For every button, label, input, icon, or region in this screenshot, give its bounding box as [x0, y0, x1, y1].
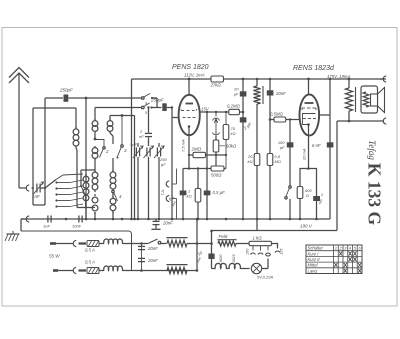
label 1k bias — [187, 189, 192, 199]
label 0.5M — [270, 112, 284, 117]
wire B-plus return line — [212, 230, 338, 232]
label 100pF — [278, 140, 285, 150]
wire cathode1 — [188, 135, 190, 170]
label 20nF bus — [162, 221, 173, 226]
label 27k — [210, 83, 222, 88]
label RENS 1823d — [293, 65, 335, 72]
switch 4 — [112, 190, 118, 201]
wire divider right — [272, 244, 278, 249]
label 60k — [220, 144, 237, 149]
connector mains aerial — [21, 216, 29, 222]
wire top bus y79 — [132, 78, 387, 80]
wire bias row — [183, 167, 211, 169]
label lamp — [257, 275, 273, 280]
capacitor 10uF — [208, 254, 214, 260]
connector mains 1 — [73, 240, 86, 246]
wire rail x207 — [206, 111, 208, 219]
label 0.2M — [227, 104, 241, 109]
connector plate bottom — [383, 118, 386, 124]
svg-text:20nF: 20nF — [147, 246, 158, 251]
label 2uF B — [317, 192, 324, 205]
fuse F2 0.5A — [87, 268, 104, 274]
svg-text:1820: 1820 — [219, 254, 223, 263]
label 20uF — [233, 87, 239, 97]
svg-text:Ω: Ω — [306, 193, 309, 198]
label 500 — [211, 173, 222, 178]
svg-text:Mittel: Mittel — [308, 263, 319, 268]
label 190V — [300, 224, 313, 229]
label 2 — [105, 149, 109, 154]
resistor 0.2M — [229, 109, 240, 114]
wire antenna to trimmer — [19, 187, 27, 189]
svg-text:2MΩ: 2MΩ — [191, 147, 202, 152]
node tube1 anode junction — [188, 78, 191, 81]
svg-text:Tefag: Tefag — [367, 140, 377, 160]
resistor barretter 2 — [167, 265, 188, 274]
svg-text:7,5 mA: 7,5 mA — [181, 139, 186, 152]
switch 5 row2 — [142, 103, 162, 109]
svg-text:pF: pF — [279, 145, 285, 150]
svg-text:0,5 µF: 0,5 µF — [213, 190, 226, 195]
svg-text:20 mA: 20 mA — [302, 148, 307, 161]
label 5b — [145, 110, 148, 115]
label 2M — [191, 147, 202, 152]
wire rail x270 — [269, 78, 272, 219]
label 20nF h2 — [147, 258, 158, 263]
svg-text:1823: 1823 — [232, 254, 236, 263]
coil L6 — [110, 193, 116, 219]
svg-text:1nF: 1nF — [43, 224, 50, 229]
resistor 27k — [211, 76, 224, 82]
capacitor 0.5u B — [204, 191, 211, 196]
label 20nF h1 — [147, 246, 158, 251]
wire rail x134 — [134, 116, 136, 220]
svg-text:0,5 A: 0,5 A — [85, 260, 95, 265]
label t1 — [130, 142, 137, 147]
coil L3 stack — [92, 146, 98, 219]
trimmer capacitor 1nF — [34, 182, 46, 194]
wire speaker return — [337, 120, 384, 123]
label 250pF grid — [150, 98, 164, 103]
svg-text:kΩ: kΩ — [247, 159, 252, 164]
resistor 2M — [189, 152, 226, 157]
resistor 20k — [254, 154, 260, 166]
label 1823 — [232, 254, 236, 263]
capacitor 250pF antenna — [64, 95, 69, 102]
triode-pentode U1 PENS1820 — [179, 79, 200, 135]
label 4 — [119, 194, 122, 199]
speaker transformer frame — [361, 86, 378, 113]
svg-text:190 V: 190 V — [300, 224, 313, 229]
fuse F1 0.5A — [87, 241, 104, 247]
capacitor 100pF — [287, 142, 294, 147]
label K 133 G — [365, 163, 385, 226]
capacitor 20nF top — [267, 90, 274, 95]
svg-text:10nF: 10nF — [72, 224, 82, 229]
wire rail x330 — [329, 78, 332, 219]
resistor 0.8M — [267, 154, 273, 166]
output pentode U2 RENS1823d — [300, 79, 320, 136]
svg-text:1nF: 1nF — [130, 142, 137, 147]
svg-text:kΩ: kΩ — [187, 194, 192, 199]
capacitor 2nF — [145, 108, 152, 147]
resistor divider 1k — [249, 241, 272, 245]
connector antenna plug — [26, 185, 34, 191]
svg-text:MΩ: MΩ — [275, 159, 281, 164]
label 0.8M — [275, 154, 281, 164]
svg-text:6 nF: 6 nF — [312, 143, 321, 148]
switch contact 2 — [95, 140, 105, 158]
label 9 — [145, 101, 148, 106]
svg-text:0,5MΩ: 0,5MΩ — [270, 112, 284, 117]
label 250pF — [59, 88, 73, 93]
wire row B — [110, 115, 135, 117]
wire tube2 screen tap — [319, 114, 330, 116]
ground symbol — [5, 231, 20, 241]
svg-text:Schalter: Schalter — [308, 246, 324, 251]
wire rail x290 — [289, 120, 291, 220]
coil L2 — [92, 108, 98, 140]
label 20mA — [302, 148, 307, 161]
svg-text:Kurz II: Kurz II — [308, 257, 321, 262]
wire chassis bus — [21, 218, 330, 221]
capacitor 250pF grid — [162, 103, 166, 111]
label 0.5u B — [213, 190, 226, 195]
speaker voice coil — [363, 92, 369, 107]
indicator arrow — [213, 111, 220, 136]
label 1nF — [32, 194, 40, 199]
label 15V — [201, 106, 210, 111]
svg-text:112V, 1mA: 112V, 1mA — [184, 73, 205, 78]
switch 5 — [80, 185, 86, 208]
label 150V — [246, 248, 250, 255]
inductor mains choke 2 — [104, 266, 197, 270]
antenna — [9, 68, 29, 189]
svg-text:2: 2 — [105, 149, 109, 154]
resistor 600 — [297, 187, 303, 199]
label 6nF — [312, 143, 321, 148]
resistor barretter 1 — [167, 238, 212, 247]
wire rail x172 — [171, 108, 173, 220]
label tube2 data — [327, 74, 350, 79]
label 70k — [231, 126, 236, 136]
resistor 1k bias — [195, 169, 201, 220]
trimmer C t1 — [133, 143, 143, 219]
svg-text:K 133 G: K 133 G — [365, 163, 385, 226]
choke iron-core — [253, 78, 263, 231]
capacitor 6nF — [327, 142, 334, 147]
switch wave-band arm — [44, 180, 56, 190]
inductor mains choke 1 — [104, 239, 148, 243]
mains pin 2 — [53, 269, 73, 272]
switch 3 — [117, 116, 124, 159]
wire coil bottom link — [77, 207, 95, 209]
svg-text:T.A.: T.A. — [161, 189, 165, 196]
wire grid cap out — [167, 106, 174, 108]
capacitor 0.5u A — [180, 191, 187, 196]
svg-text:0,5 A: 0,5 A — [85, 248, 95, 253]
switch 9 row1 — [142, 94, 158, 108]
label 55W — [49, 254, 60, 259]
svg-text:5V,0,23A: 5V,0,23A — [257, 275, 273, 280]
label 10uF — [196, 250, 204, 263]
coil antenna tapped — [83, 174, 89, 219]
capacitor 2uF A — [240, 117, 247, 122]
label tube1 data — [184, 73, 205, 78]
label F1 — [85, 248, 95, 253]
svg-text:15V: 15V — [201, 106, 210, 111]
label 20nF top — [275, 91, 286, 96]
filament 1820 — [212, 263, 230, 268]
wire lamp riser — [266, 255, 271, 269]
mains pin 1 — [50, 242, 73, 245]
label divider — [253, 236, 263, 241]
label F2 — [85, 260, 95, 265]
svg-text:1 kΩ: 1 kΩ — [253, 236, 263, 241]
svg-text:250pF: 250pF — [150, 98, 164, 103]
lamp dial 5V — [251, 263, 268, 273]
svg-text:Lang: Lang — [308, 268, 318, 273]
wire left box side — [33, 108, 45, 205]
coil L4 — [107, 116, 113, 145]
label t3 — [159, 157, 167, 167]
capacitor 20nF bus-gnd — [152, 219, 161, 229]
wire cathode split — [300, 169, 317, 220]
wire anode out — [200, 111, 243, 113]
wire ground line — [21, 219, 132, 271]
trimmer C t3 — [154, 143, 164, 219]
node 2nF tap — [147, 106, 149, 108]
label 7.5mA — [181, 139, 186, 152]
node tube2 top — [307, 78, 310, 81]
filament 1823 — [229, 263, 249, 268]
svg-text:20nF: 20nF — [162, 221, 173, 226]
label T.A. — [161, 189, 165, 196]
label 20k — [247, 154, 253, 164]
switch mains — [148, 239, 167, 244]
switch contacts — [55, 180, 83, 208]
wire grid entry — [172, 117, 179, 119]
capacitor 20uF — [240, 91, 247, 96]
svg-text:0,2MΩ: 0,2MΩ — [227, 104, 241, 109]
loudspeaker — [371, 88, 385, 113]
svg-text:20nF: 20nF — [147, 258, 158, 263]
wire rail x243 — [242, 78, 245, 219]
table switch positions — [306, 245, 362, 274]
svg-text:125: 125 — [280, 248, 284, 255]
svg-text:nF: nF — [139, 134, 144, 139]
trimmer C t2 — [144, 146, 154, 219]
wire contact top to coil — [56, 174, 83, 180]
resistor 0.5M grid — [270, 117, 299, 122]
svg-text:Kurz I: Kurz I — [308, 251, 320, 256]
node L2 bottom — [94, 138, 97, 141]
label 3 — [124, 148, 127, 153]
capacitor 10nF bus — [72, 216, 82, 229]
svg-text:1: 1 — [335, 246, 337, 251]
svg-text:kΩ: kΩ — [231, 131, 236, 136]
node heater row1 — [140, 242, 143, 245]
wire left box top — [33, 107, 76, 109]
resistor 60k — [213, 136, 219, 170]
label PENS 1820 — [172, 64, 209, 71]
wire link x81 — [81, 170, 95, 186]
node output — [348, 78, 351, 81]
label 2nF — [139, 129, 144, 139]
label 0.5u A — [168, 194, 178, 207]
coil L5 — [110, 158, 116, 191]
switch tone — [285, 186, 291, 219]
label 2uF A — [242, 121, 253, 131]
wire heater return x197 — [196, 218, 199, 272]
svg-text:27kΩ: 27kΩ — [210, 83, 222, 88]
wire antenna cap drop — [44, 98, 46, 188]
label Feld — [219, 234, 228, 239]
node heater row2 — [140, 269, 143, 272]
svg-text:pF: pF — [160, 162, 166, 167]
label 600 — [305, 188, 312, 198]
wire antenna cap row — [45, 97, 142, 99]
connector mains 2 — [73, 267, 86, 273]
jack T.A. — [166, 169, 176, 220]
resistor speaker field — [345, 79, 355, 121]
svg-text:55 W: 55 W — [49, 254, 60, 259]
svg-text:20nF: 20nF — [275, 91, 286, 96]
svg-text:60kΩ: 60kΩ — [226, 144, 237, 149]
capacitor 20nF h1 — [138, 244, 145, 271]
svg-text:250pF: 250pF — [59, 88, 73, 93]
node row B — [121, 114, 124, 117]
svg-text:150: 150 — [246, 248, 250, 255]
node junction 250pF row — [85, 97, 88, 100]
svg-text:µF: µF — [234, 92, 239, 97]
wire feld drop — [210, 230, 213, 269]
wire rail x86 — [85, 98, 87, 219]
label 125V — [280, 248, 284, 255]
wire rail x131 — [131, 79, 133, 219]
svg-text:Feld: Feld — [219, 234, 228, 239]
resistor field coil — [218, 240, 250, 246]
connector plate top — [380, 76, 386, 82]
resistor 70k — [223, 111, 229, 169]
wire grid row — [95, 107, 142, 109]
label 1820 — [219, 254, 223, 263]
divider taps — [251, 246, 281, 255]
resistor 500 — [211, 166, 226, 171]
wire B+ return x337 — [336, 121, 338, 231]
svg-text:PENS 1820: PENS 1820 — [172, 64, 209, 71]
wire cathode2 — [307, 136, 310, 170]
capacitor 2uF B — [313, 196, 320, 201]
svg-text:RENS 1823d: RENS 1823d — [293, 65, 335, 72]
coil loop-antenna L1 — [73, 108, 79, 208]
wire rail x183 — [182, 169, 184, 220]
capacitor 1nF bus — [43, 216, 51, 229]
label Tefag — [367, 140, 377, 160]
svg-text:500Ω: 500Ω — [211, 173, 222, 178]
